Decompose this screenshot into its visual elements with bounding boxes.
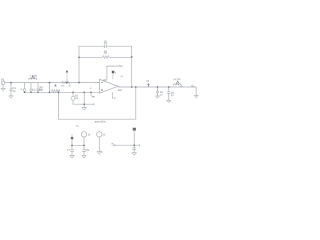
svg-text:10k: 10k: [104, 52, 108, 55]
svg-text:+: +: [98, 133, 100, 136]
junction dot lower rail x84.2: [83, 92, 85, 94]
svg-text:33p: 33p: [104, 42, 108, 45]
capacitor C6 plates: [167, 92, 170, 94]
box stub x91: [90, 92, 92, 96]
svg-text:C8: C8: [86, 149, 90, 152]
capacitor C4 plates: [37, 89, 40, 91]
marker blob x55: [54, 84, 57, 86]
svg-text:15: 15: [103, 134, 106, 137]
voltage source V3 circle: [97, 132, 102, 137]
svg-text:+: +: [83, 133, 85, 136]
capacitor C1 plates: [10, 89, 13, 91]
wire feedback top line: [79, 45, 132, 47]
junction dot x11 main: [10, 82, 12, 84]
flag blob bias: [133, 128, 136, 131]
wire branch x157.5: [157, 87, 159, 96]
junction dot x79 main: [78, 82, 80, 84]
junction dot x49.5 main: [49, 82, 51, 84]
junction dot lower rail x49.5: [49, 92, 51, 94]
inductor L2 bumps: [173, 84, 181, 85]
capacitor C2 plates: [105, 45, 107, 48]
junction dot lower rail x91: [90, 92, 92, 94]
bias right tick: [139, 144, 141, 146]
voltage source V2 circle: [81, 132, 86, 137]
wire lower rail: [25, 91, 100, 93]
svg-text:0: 0: [101, 151, 103, 154]
wire branch x168.75: [168, 87, 170, 100]
svg-text:L1 1m: L1 1m: [30, 75, 37, 78]
junction dot bias: [133, 144, 135, 146]
ground below C1: [9, 96, 13, 98]
svg-text:2: 2: [115, 71, 117, 74]
wire main input: [5, 82, 100, 84]
box branch mid vertical: [83, 92, 85, 104]
op-amp plus input mark: [101, 89, 103, 91]
wire feedback left vertical: [78, 46, 80, 82]
wire V+ branch vertical: [71, 139, 73, 155]
ground below V1: [1, 88, 5, 90]
op-amp minus input mark: [101, 82, 103, 84]
wire V1 to ground: [2, 84, 4, 88]
wire output U-loop down: [135, 87, 137, 119]
flag square stem: [112, 73, 114, 79]
junction dot supply x72: [71, 145, 73, 147]
junction dot output feedback: [131, 86, 133, 88]
svg-text:I1: I1: [21, 88, 24, 91]
junction dot output x168.75: [168, 86, 170, 88]
inductor L1 bumps: [29, 78, 37, 79]
box bottom join wire: [73, 103, 94, 105]
capacitor C7 plates: [71, 150, 74, 152]
wire branch x38: [37, 83, 39, 93]
box arrow tip: [93, 104, 94, 105]
junction dot lower rail x24.5: [24, 92, 26, 94]
svg-text:L2 1m: L2 1m: [174, 78, 181, 81]
flag arrow up: [148, 84, 150, 87]
svg-text:R9: R9: [92, 95, 96, 98]
ground V3: [97, 152, 101, 155]
svg-text:2k: 2k: [68, 85, 71, 88]
current source I1 circle: [23, 89, 26, 92]
svg-text:out: out: [118, 88, 122, 92]
wire end branch x196.2: [195, 87, 197, 95]
junction dot lower rail x31: [30, 92, 32, 94]
bias arrow left: [113, 144, 115, 146]
capacitor C5 plates: [156, 91, 159, 93]
svg-text:V+: V+: [76, 125, 80, 128]
inductor L2 caret: [176, 81, 179, 84]
junction dot output x157.5: [157, 86, 159, 88]
wire flag stub x67: [66, 71, 68, 83]
flag blob V+ supply: [71, 137, 74, 139]
wire V3 down: [98, 137, 100, 152]
wire U-loop left vertical: [58, 92, 60, 119]
resistor R2 zigzag: [52, 89, 60, 92]
capacitor C8 plates: [83, 150, 86, 152]
svg-text:C3: C3: [32, 89, 36, 92]
ground x196.2: [194, 95, 198, 97]
op-amp V- pin wire: [111, 92, 113, 99]
box branch G1 vertical: [72, 92, 74, 104]
inductor L1 caret: [32, 76, 35, 79]
junction dot lower rail x58.5: [58, 92, 60, 94]
wire vertical x49.5: [49, 83, 51, 93]
wire U-loop bottom: [59, 118, 136, 120]
capacitor C9 plates: [133, 148, 136, 150]
svg-text:15: 15: [88, 134, 91, 137]
svg-text:1m: 1m: [75, 97, 78, 100]
junction dot feedback left mid: [78, 57, 80, 59]
svg-text:V1: V1: [1, 77, 5, 81]
junction dot feedback right mid: [131, 56, 133, 58]
svg-text:V+: V+: [120, 64, 124, 68]
svg-text:C7: C7: [67, 149, 71, 152]
flag V+ supply stub: [71, 135, 73, 140]
voltage source V1 circle: [1, 81, 4, 84]
op-amp V+ pin wire: [107, 66, 120, 80]
wire V2 down: [83, 137, 85, 155]
svg-text:V-: V-: [114, 97, 117, 100]
junction dot supply x84: [83, 145, 85, 147]
wire branch x24.5: [24, 83, 26, 93]
junction dot output U-loop: [135, 86, 137, 88]
ground x72: [70, 155, 74, 158]
resistor R1 zigzag on main wire: [62, 81, 70, 83]
svg-text:U1: U1: [103, 78, 107, 82]
junction dot x67 main: [66, 82, 68, 84]
junction dot box join: [83, 103, 85, 105]
svg-text:1u: 1u: [13, 90, 16, 93]
op-amp U1 triangle: [100, 79, 118, 93]
junction dot rail x73: [72, 92, 74, 94]
resistor R3 zigzag: [103, 56, 110, 59]
wire branch x31: [30, 83, 32, 93]
wire feedback second line: [79, 56, 132, 58]
wire output up-flag stub: [148, 84, 150, 87]
ground box: [82, 107, 86, 110]
current source G1 circle: [71, 96, 75, 100]
ground x157.5: [156, 96, 160, 98]
wire bias horizontal: [113, 144, 139, 146]
ground x84: [82, 155, 86, 158]
wire bias branch vertical: [133, 131, 135, 152]
ground bias: [132, 153, 136, 156]
svg-text:u2: u2: [120, 75, 123, 78]
flag square x67: [66, 71, 68, 73]
wire supply join: [72, 144, 84, 146]
svg-text:750: 750: [39, 88, 44, 91]
svg-text:10u: 10u: [180, 85, 184, 88]
svg-text:vo: vo: [146, 79, 149, 82]
wire output: [118, 86, 196, 88]
junction dot lower rail x38: [37, 92, 39, 94]
wire C1 branch vertical: [10, 83, 12, 96]
flag square op-amp pin: [112, 71, 115, 73]
svg-text:R1: R1: [62, 85, 66, 88]
svg-text:n2: n2: [89, 87, 92, 90]
svg-text:.tran 10m: .tran 10m: [94, 121, 106, 124]
wire to box ground: [83, 104, 85, 107]
wire feedback right vertical: [131, 46, 133, 87]
capacitor C3 plates: [30, 89, 33, 91]
ground x168.75: [167, 100, 171, 102]
